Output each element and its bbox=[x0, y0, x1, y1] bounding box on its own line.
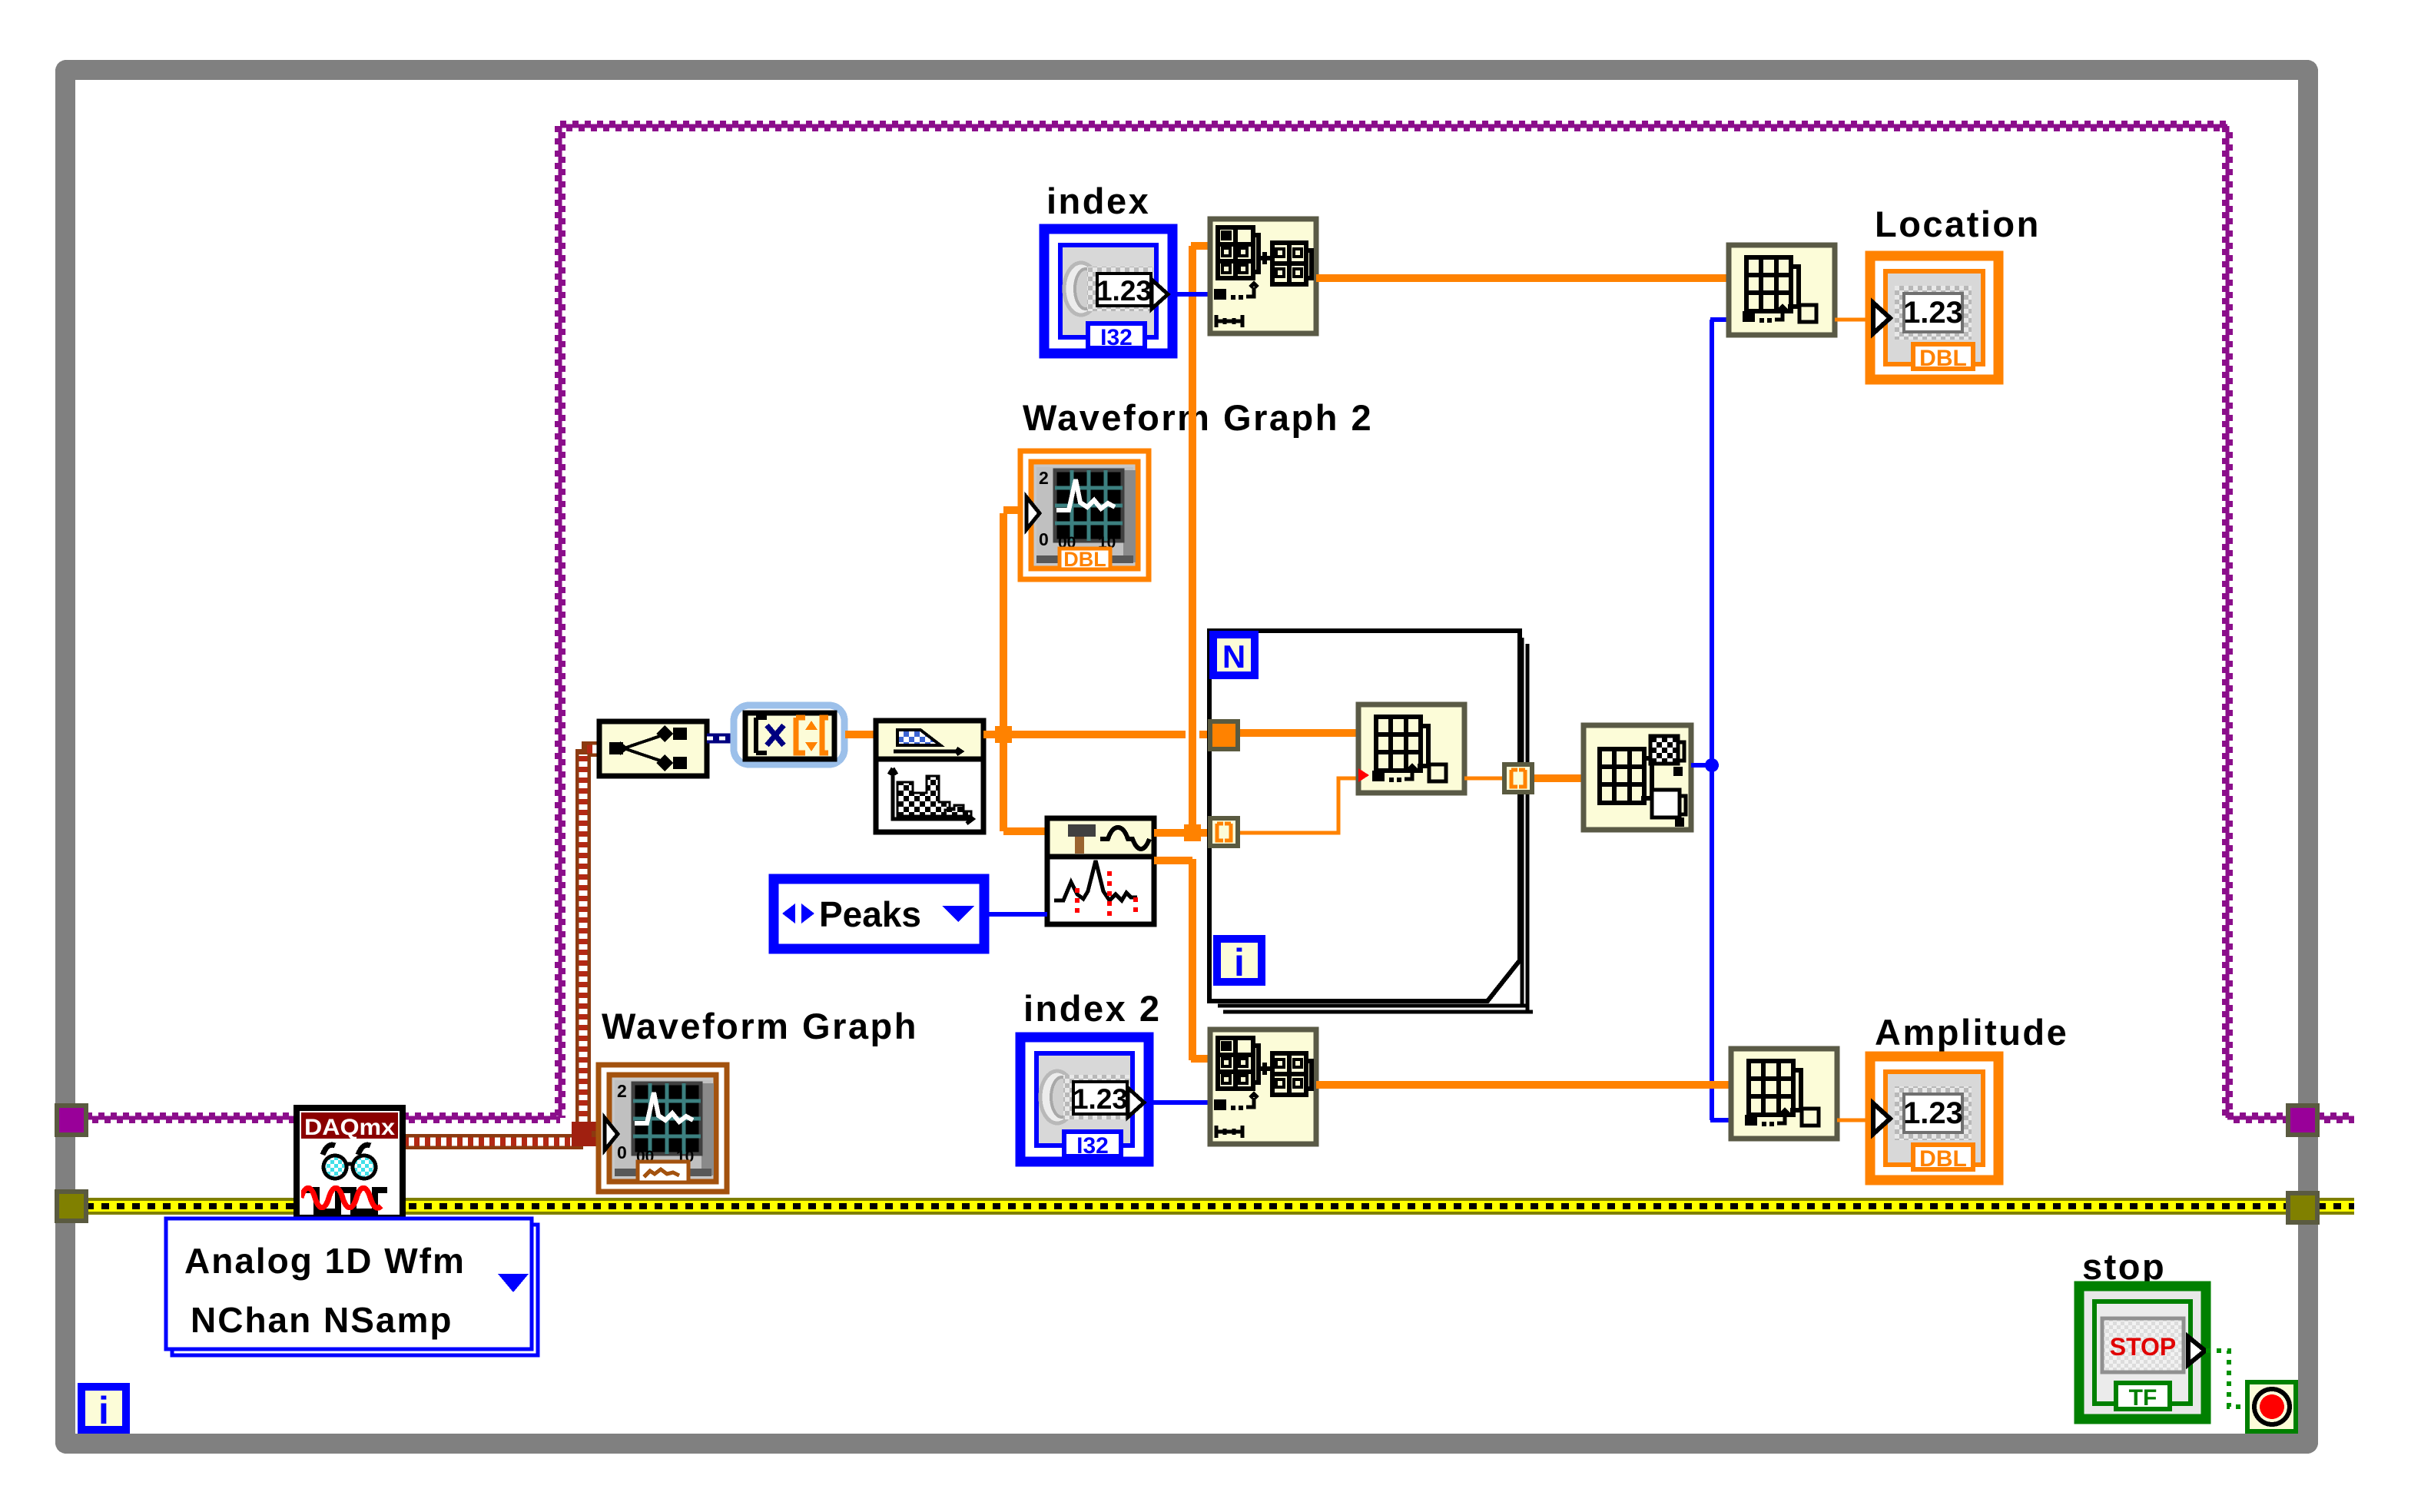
for loop (stacked pages) bbox=[1209, 631, 1533, 1012]
node: Index Array (top right) bbox=[1729, 245, 1835, 335]
wire: max index (blue) with junction dot bbox=[1691, 320, 1731, 1120]
svg-text:1.23: 1.23 bbox=[1903, 296, 1963, 330]
wire: amplitude value to indicator (thin orange) bbox=[1837, 1119, 1872, 1122]
svg-text:DBL: DBL bbox=[1063, 548, 1106, 571]
for loop count terminal N bbox=[1209, 631, 1259, 679]
svg-text:index 2: index 2 bbox=[1023, 988, 1161, 1029]
tunnel: data array in (solid orange) bbox=[1208, 719, 1240, 751]
tunnel: indexing input [] bbox=[1208, 816, 1240, 848]
indicator: Location (DBL) bbox=[1870, 256, 1998, 380]
control: Peaks enum bbox=[774, 879, 984, 949]
svg-text:STOP: STOP bbox=[2110, 1333, 2177, 1361]
wire junction (brown) to Waveform Graph bbox=[572, 1122, 605, 1146]
wire: peak amplitudes out (orange down to Array Subset 2) bbox=[1154, 859, 1211, 1060]
svg-text:DBL: DBL bbox=[1919, 1146, 1967, 1172]
svg-text:I32: I32 bbox=[1100, 325, 1133, 350]
label: Amplitude bbox=[1875, 1012, 2068, 1053]
node: Peak Detector (hammer + peaks) bbox=[1047, 818, 1154, 924]
svg-text:Location: Location bbox=[1875, 204, 2041, 244]
tunnel: indexing output [] bbox=[1502, 762, 1534, 794]
svg-text:1.23: 1.23 bbox=[1903, 1096, 1963, 1130]
svg-text:N: N bbox=[1222, 638, 1245, 675]
wire: dynamic data (navy striped) bbox=[707, 734, 733, 744]
svg-text:1.23: 1.23 bbox=[1073, 1083, 1128, 1115]
indicator: Amplitude (DBL) bbox=[1870, 1056, 1998, 1180]
while loop conditional terminal (stop sign) bbox=[2245, 1380, 2298, 1434]
wire: peak locations out (orange to junction, up to Array Subset, into loop) bbox=[1154, 246, 1211, 841]
node: Array Max and Min bbox=[1584, 725, 1691, 830]
svg-text:1.23: 1.23 bbox=[1096, 275, 1152, 307]
wire: location value to indicator (thin orange) bbox=[1835, 318, 1872, 322]
svg-text:TF: TF bbox=[2129, 1385, 2157, 1411]
svg-text:2: 2 bbox=[1039, 468, 1049, 488]
label: Location bbox=[1875, 204, 2041, 244]
polymorphic VI selector: Analog 1D Wfm NChan NSamp bbox=[166, 1219, 538, 1355]
wire: collected array to Array Max Min (thick orange) bbox=[1534, 774, 1584, 782]
shift register right (task, purple) bbox=[2286, 1103, 2320, 1137]
svg-text:Peaks: Peaks bbox=[819, 894, 921, 934]
for loop iteration terminal i bbox=[1213, 935, 1265, 986]
wire: subset array to Index Array right (thick orange long) bbox=[1316, 274, 1729, 282]
svg-text:Waveform Graph: Waveform Graph bbox=[602, 1006, 918, 1046]
shift register left (error, olive) bbox=[55, 1189, 88, 1223]
while loop iteration terminal i bbox=[78, 1383, 130, 1434]
shift register left (task, purple) bbox=[55, 1103, 88, 1137]
wire: DBL array capsule to filter node bbox=[845, 731, 876, 738]
wire: branch to Waveform Graph 2 and Peak Detector (orange vertical) bbox=[995, 510, 1047, 831]
svg-text:NChan NSamp: NChan NSamp bbox=[191, 1300, 453, 1340]
label: Waveform Graph 2 bbox=[1023, 397, 1373, 438]
node: filter / histogram (two stacked icons) bbox=[876, 721, 983, 832]
svg-text:Amplitude: Amplitude bbox=[1875, 1012, 2068, 1053]
label: Waveform Graph bbox=[602, 1006, 918, 1046]
wire: Peaks to Peak Detector (blue) bbox=[984, 912, 1047, 917]
indicator: Waveform Graph bbox=[599, 1065, 727, 1192]
wire: stop to conditional terminal (green dotted) bbox=[2206, 1351, 2245, 1407]
node: Split Signals bbox=[599, 721, 707, 776]
wire: index to Array Subset (blue) bbox=[1172, 292, 1210, 297]
label: stop bbox=[2082, 1246, 2166, 1287]
node: Index Array (inside loop) bbox=[1358, 705, 1464, 793]
control: index (I32) bbox=[1044, 229, 1172, 353]
svg-text:Analog 1D Wfm: Analog 1D Wfm bbox=[184, 1241, 466, 1281]
shift register right (error, olive) bbox=[2286, 1191, 2320, 1225]
control: index 2 (I32) bbox=[1020, 1037, 1149, 1162]
wire: filtered data array (thick orange main) bbox=[983, 731, 1211, 738]
wire: error cluster (yellow/black band) bbox=[86, 1198, 2354, 1215]
indicator: Waveform Graph 2 bbox=[1020, 451, 1149, 579]
wire: waveform array (brown hatched) from DAQmx Read up to Split Signals bbox=[403, 749, 599, 1143]
wire: indexed location to Index Array index input (thin orange) bbox=[1240, 778, 1358, 833]
node: Array Subset (top) bbox=[1210, 219, 1316, 333]
svg-text:i: i bbox=[98, 1389, 109, 1432]
svg-text:2: 2 bbox=[617, 1081, 627, 1101]
node: Array Subset 2 (bottom) bbox=[1210, 1030, 1316, 1144]
svg-text:Waveform Graph 2: Waveform Graph 2 bbox=[1023, 397, 1373, 438]
svg-text:index: index bbox=[1046, 181, 1150, 221]
DAQmx Read VI bbox=[297, 1108, 403, 1218]
wire: subset 2 array to Index Array bottom right (thick orange long) bbox=[1316, 1081, 1731, 1089]
svg-text:I32: I32 bbox=[1076, 1133, 1109, 1159]
label: index 2 bbox=[1023, 988, 1161, 1029]
svg-text:0: 0 bbox=[1039, 529, 1049, 549]
node: Index Array (bottom right) bbox=[1731, 1049, 1837, 1139]
wire: array into Index Array (thick orange inside loop) bbox=[1240, 729, 1358, 737]
svg-text:i: i bbox=[1234, 941, 1245, 984]
svg-text:0: 0 bbox=[617, 1142, 627, 1162]
control: stop (TF boolean) bbox=[2079, 1286, 2206, 1419]
node: Convert from Dynamic Data (express capsule) bbox=[734, 705, 844, 764]
wire: element out to [] tunnel (thin orange) bbox=[1464, 777, 1504, 781]
svg-text:DBL: DBL bbox=[1919, 346, 1967, 371]
wire: DAQmx task (purple dashed rectangle) bbox=[86, 123, 2354, 1121]
wire: index 2 to Array Subset 2 (blue) bbox=[1148, 1100, 1210, 1105]
label: index bbox=[1046, 181, 1150, 221]
svg-text:stop: stop bbox=[2082, 1246, 2166, 1287]
svg-text:DAQmx: DAQmx bbox=[304, 1115, 395, 1140]
